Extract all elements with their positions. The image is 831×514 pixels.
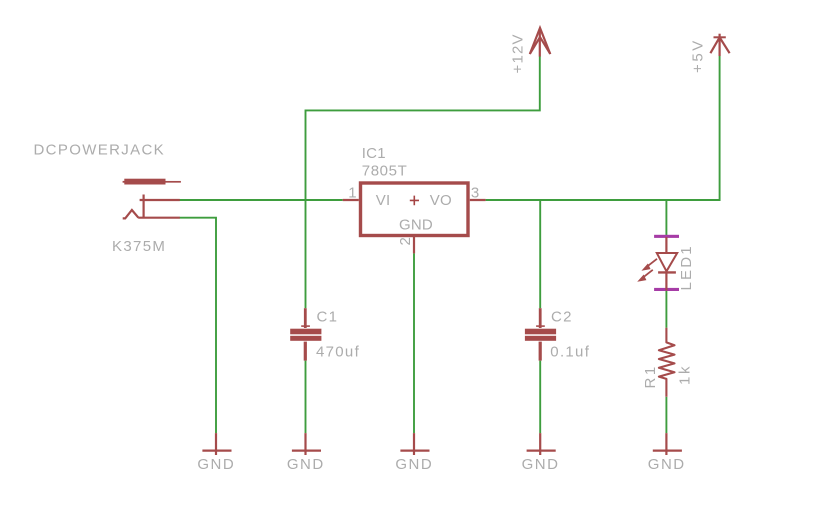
resistor R1 zigzag <box>659 328 675 397</box>
op-amp/regulator IC1 body <box>361 183 469 236</box>
label GND 3 <box>395 456 433 473</box>
svg-text:3: 3 <box>471 184 480 201</box>
svg-text:GND: GND <box>395 456 433 473</box>
wire: C1 branch above C1 <box>305 200 307 308</box>
polarity mark + inside IC1 <box>410 196 419 206</box>
ground symbol GND 2 (C1) <box>292 433 321 455</box>
label C2 <box>551 309 573 326</box>
svg-text:1: 1 <box>348 184 357 201</box>
wire: LED to R1 <box>665 291 667 328</box>
IC1 pin 1 stub <box>343 199 359 201</box>
label GND 5 <box>648 456 686 473</box>
svg-text:VO: VO <box>430 192 452 209</box>
wire: riser x=305.5, top rail y=110, +12V riser x=539.8 <box>306 56 540 200</box>
svg-text:IC1: IC1 <box>362 145 386 162</box>
pin number 1 <box>348 184 357 201</box>
svg-text:7805T: 7805T <box>362 162 408 179</box>
wire: C2 branch above C2 <box>539 200 541 308</box>
IC1 pin 2 stub <box>413 237 415 253</box>
ground symbol GND 3 (IC1 pin2) <box>400 433 429 455</box>
wire: IC1 pin 3 to +5V riser (net +5V) <box>486 56 720 200</box>
label IC1 <box>362 145 386 162</box>
svg-text:+5V: +5V <box>689 38 706 73</box>
label K375M <box>112 238 166 255</box>
label DCPOWERJACK <box>34 142 166 159</box>
ground symbol GND 4 (C2) <box>527 433 556 455</box>
label 1k <box>676 364 693 385</box>
pin label VO <box>430 192 452 209</box>
label LED1 <box>678 244 695 290</box>
wire: LED branch from output rail <box>665 200 667 236</box>
wire: jack sleeve to GND corner <box>180 218 217 433</box>
wire: C1 to GND <box>305 361 307 434</box>
label C1 <box>317 309 339 326</box>
label +12V <box>509 33 526 73</box>
svg-text:C1: C1 <box>317 309 339 326</box>
capacitor C2 plates <box>525 308 556 360</box>
svg-text:470uf: 470uf <box>316 343 360 360</box>
wire: R1 to GND <box>665 397 667 433</box>
svg-text:R1: R1 <box>642 364 659 388</box>
label 470uf <box>316 343 360 360</box>
label GND 2 <box>287 456 325 473</box>
wire: jack output to IC1 pin 1 (net +12V) <box>180 199 343 201</box>
svg-text:DCPOWERJACK: DCPOWERJACK <box>34 142 166 159</box>
LED1 top contact bar <box>654 235 679 238</box>
svg-text:2: 2 <box>397 237 414 246</box>
svg-text:GND: GND <box>522 456 560 473</box>
ground symbol GND 5 (R1) <box>653 433 682 455</box>
label +5V <box>689 38 706 73</box>
connector J1 DCPOWERJACK body pins <box>123 195 180 219</box>
ground symbol GND 1 (jack) <box>202 433 231 455</box>
svg-text:+12V: +12V <box>509 33 526 73</box>
label R1 <box>642 364 659 388</box>
svg-text:LED1: LED1 <box>678 244 695 290</box>
wire: IC1 pin 2 to GND <box>413 253 415 433</box>
wire: C2 to GND <box>539 361 541 434</box>
svg-text:VI: VI <box>376 192 391 209</box>
svg-text:GND: GND <box>399 216 433 233</box>
capacitor C1 plates <box>290 308 321 360</box>
LED1 emission arrows <box>637 259 657 282</box>
pin label GND inside IC1 <box>399 216 433 233</box>
label 0.1uf <box>550 343 590 360</box>
svg-text:K375M: K375M <box>112 238 166 255</box>
connector J1 DCPOWERJACK barrel <box>123 179 181 185</box>
supply symbol +12V arrow <box>530 28 551 57</box>
label GND 4 <box>522 456 560 473</box>
svg-text:1k: 1k <box>676 364 693 385</box>
supply symbol +5V arrow <box>710 34 729 56</box>
svg-text:GND: GND <box>287 456 325 473</box>
label 7805T <box>362 162 408 179</box>
svg-text:0.1uf: 0.1uf <box>550 343 590 360</box>
svg-text:GND: GND <box>648 456 686 473</box>
svg-text:C2: C2 <box>551 309 573 326</box>
label GND 1 <box>197 456 235 473</box>
svg-text:GND: GND <box>197 456 235 473</box>
diode LED1 symbol <box>657 237 677 291</box>
pin number 2 <box>397 237 414 246</box>
LED1 bottom contact bar <box>654 288 679 291</box>
pin number 3 <box>471 184 480 201</box>
pin label VI <box>376 192 391 209</box>
IC1 pin 3 stub <box>470 199 486 201</box>
